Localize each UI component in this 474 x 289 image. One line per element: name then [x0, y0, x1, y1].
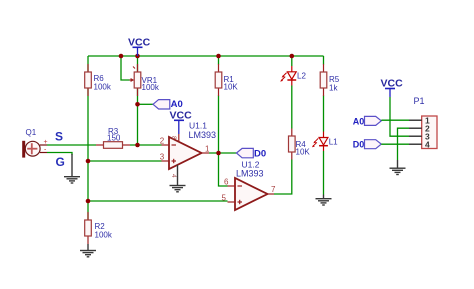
tag A0 right (pointing to P1)	[353, 116, 382, 126]
wire x=88 pin3 node down to pin5 node	[87, 161, 89, 201]
wire L2 to R4	[291, 86, 293, 129]
wire pin3 row	[88, 160, 162, 162]
ground under R2	[80, 244, 96, 257]
junction dot output node	[216, 151, 221, 156]
svg-text:10K: 10K	[224, 83, 239, 92]
svg-text:100k: 100k	[95, 231, 113, 240]
wire R1 rail drop x=218.5	[218, 56, 220, 65]
svg-text:100k: 100k	[142, 83, 160, 92]
wire P1 pin2 to ground	[398, 128, 410, 160]
svg-text:LM393: LM393	[236, 169, 264, 179]
junction dot pin3 node	[86, 159, 91, 164]
wire VR1 wiper from rail	[121, 56, 130, 80]
svg-text:P1: P1	[414, 96, 425, 106]
svg-text:+: +	[44, 139, 48, 146]
svg-text:4: 4	[425, 140, 430, 150]
tag D0 right (pointing to P1)	[353, 139, 382, 149]
wire VR1 branch x=137.5 rail to pin2 row	[137, 56, 139, 145]
svg-text:G: G	[56, 155, 65, 169]
wire D0 to P1 pin4	[381, 143, 409, 145]
tag D0 (net label)	[237, 148, 267, 159]
connector P1	[409, 96, 437, 150]
wire output node down to U1.2 pin6	[219, 153, 228, 186]
wire mic S to R3	[47, 144, 96, 146]
svg-text:4: 4	[170, 174, 177, 178]
wire left rail x=88 from VCC rail through R6 to pin3 node	[87, 56, 89, 161]
junction dot pin2 node	[135, 143, 140, 148]
LED L1	[312, 132, 338, 152]
wire A0 to P1 pin1	[381, 119, 409, 121]
wire L1 to ground	[323, 151, 325, 195]
svg-text:D0: D0	[254, 148, 266, 159]
power VCC mid above U1.1	[170, 110, 193, 142]
svg-text:A0: A0	[353, 116, 365, 126]
ground under P1	[390, 160, 406, 175]
svg-text:7: 7	[271, 185, 276, 194]
resistor R2	[85, 212, 113, 244]
svg-text:1: 1	[205, 145, 210, 154]
svg-text:100k: 100k	[94, 83, 112, 92]
wire rail right end down to R5	[323, 56, 325, 65]
wire U1.2 out up to R4	[274, 160, 292, 195]
svg-text:2: 2	[160, 137, 165, 146]
resistor R5	[320, 64, 340, 96]
wire U1.1 output to D0 tag	[209, 152, 237, 154]
junction dot rail x121	[119, 54, 124, 59]
svg-text:L2: L2	[297, 72, 306, 81]
junction dot rail x292	[290, 54, 295, 59]
resistor R4	[289, 129, 311, 160]
microphone Q1	[22, 128, 47, 158]
wire mic G to ground	[47, 153, 72, 156]
junction dot node A0	[135, 102, 140, 107]
svg-text:L1: L1	[329, 138, 338, 147]
tag A0 (net label)	[153, 99, 183, 110]
wire node A0 stub	[138, 103, 154, 105]
wire VCC right to P1 pin3	[390, 97, 409, 136]
ground under U1.1	[170, 165, 186, 192]
op-amp U1.1	[162, 121, 217, 179]
junction dot rail x137	[135, 54, 140, 59]
ground under L1	[316, 195, 332, 206]
potentiometer VR1	[130, 64, 160, 96]
LED L2	[280, 66, 306, 86]
svg-text:LM393: LM393	[189, 130, 217, 140]
svg-text:D0: D0	[353, 139, 365, 149]
ground under mic G	[64, 154, 80, 183]
wire L2 chain: rail to L2	[291, 56, 293, 66]
wire pin5 row	[88, 200, 228, 202]
svg-text:5: 5	[222, 194, 227, 203]
svg-text:1k: 1k	[329, 84, 338, 93]
svg-text:3: 3	[160, 153, 165, 162]
op-amp U1.2	[228, 160, 275, 211]
wire x=88 pin5 node down to R2	[87, 201, 89, 220]
svg-text:8: 8	[170, 136, 177, 140]
svg-text:10K: 10K	[296, 148, 311, 157]
wire R1 bottom to output node	[218, 96, 220, 154]
svg-text:Q1: Q1	[26, 128, 37, 137]
resistor R6	[85, 64, 112, 96]
resistor R3	[96, 127, 130, 148]
svg-text:U1.1: U1.1	[189, 121, 207, 131]
junction dot rail x218	[216, 54, 221, 59]
svg-text:6: 6	[224, 178, 229, 187]
power VCC right	[381, 78, 404, 98]
svg-text:150: 150	[107, 134, 121, 143]
wire R3 to U1.1 pin2	[130, 144, 162, 146]
svg-text:A0: A0	[171, 99, 183, 110]
junction dot pin5 node	[86, 199, 91, 204]
wire top VCC rail	[88, 55, 324, 57]
power VCC top	[128, 37, 151, 57]
resistor R1	[215, 64, 238, 96]
svg-text:S: S	[55, 130, 63, 144]
wire R5 to L1	[323, 96, 325, 132]
